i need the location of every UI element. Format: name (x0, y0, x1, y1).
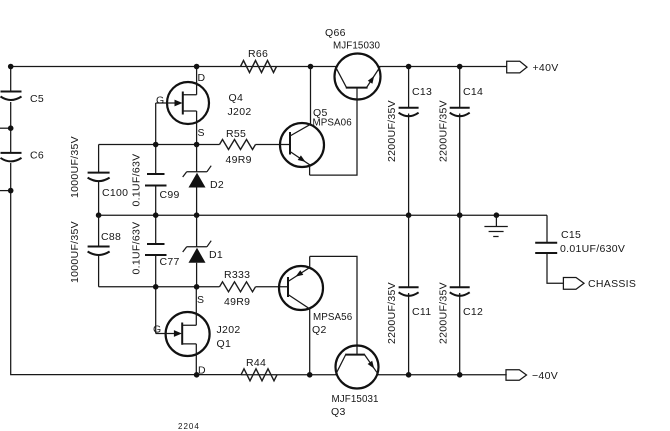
svg-text:D2: D2 (210, 179, 224, 191)
capacitor C12 (438, 215, 484, 375)
capacitor C14 (438, 67, 484, 216)
capacitor C5 (1, 92, 45, 106)
svg-text:2200UF/35V: 2200UF/35V (386, 100, 398, 162)
node mid C99 (153, 212, 159, 218)
capacitor C99 (131, 154, 180, 207)
svg-text:49R9: 49R9 (224, 296, 250, 308)
svg-text:J202: J202 (217, 324, 241, 336)
svg-text:G: G (153, 324, 161, 336)
resistor R333 (220, 269, 256, 308)
JFET Q1 (153, 287, 240, 377)
node Q4 source (194, 142, 200, 148)
svg-text:MJF15030: MJF15030 (333, 41, 381, 52)
resistor R44 (241, 357, 277, 381)
svg-text:C88: C88 (101, 231, 121, 243)
capacitor C100 (69, 136, 128, 199)
node C13 mid (406, 212, 412, 218)
svg-text:S: S (198, 127, 205, 139)
capacitor C6 (1, 150, 45, 162)
resistor R55 (220, 128, 256, 166)
svg-text:S: S (197, 294, 204, 306)
svg-text:R66: R66 (248, 48, 268, 60)
zener diode D2 (183, 166, 224, 191)
svg-text:MPSA06: MPSA06 (313, 118, 353, 129)
node C77 bottom (153, 284, 159, 290)
svg-text:0.01UF/630V: 0.01UF/630V (560, 243, 625, 255)
transistor Q5 (280, 107, 352, 175)
node dot top-left (8, 64, 14, 70)
transistor Q3 (331, 346, 379, 419)
svg-text:C12: C12 (463, 306, 483, 318)
wire upper gate line y144.5 (99, 144, 220, 146)
JFET Q4 (156, 67, 252, 145)
zener diode D1 (183, 241, 223, 263)
node C14 mid (457, 212, 463, 218)
svg-text:C77: C77 (160, 256, 180, 268)
wire R333 to Q2 base (256, 286, 289, 288)
resistor R66 (241, 48, 277, 73)
wire Q2 emitter link to Q3 base (310, 256, 357, 354)
node C11 bottom (406, 372, 412, 378)
terminal -40V (506, 370, 558, 382)
node mid main (194, 212, 200, 218)
svg-text:Q66: Q66 (325, 27, 346, 39)
node B (left 190) (8, 188, 14, 194)
node Q1 drain on rail (194, 372, 200, 378)
wire bottom rail (241, 374, 507, 376)
svg-text:C15: C15 (561, 229, 581, 241)
svg-text:C99: C99 (160, 189, 180, 201)
wire top rail (11, 66, 507, 68)
svg-text:Q3: Q3 (331, 406, 346, 418)
svg-text:D: D (198, 72, 206, 84)
wire Q5 collector riser (310, 67, 312, 125)
capacitor C77 (131, 222, 180, 275)
node C12 bottom (457, 372, 463, 378)
svg-text:C13: C13 (412, 86, 432, 98)
svg-text:C100: C100 (102, 187, 128, 199)
svg-text:Q1: Q1 (217, 338, 232, 350)
node Q4 drain on rail (194, 64, 200, 70)
node C99 top (153, 142, 159, 148)
node C14 top (457, 64, 463, 70)
node ground junction (494, 212, 500, 218)
node mid C100 (96, 212, 102, 218)
svg-text:+40V: +40V (533, 62, 559, 74)
node main lower (194, 284, 200, 290)
wire Q66 base down (310, 88, 357, 176)
wire stub left at node 190 (0, 190, 11, 192)
wire main vertical S to mid (196, 145, 198, 216)
wire left column vertical (11, 67, 241, 375)
svg-text:C14: C14 (463, 86, 483, 98)
node R44/Q2 collector junction (307, 372, 313, 378)
svg-text:D1: D1 (209, 249, 223, 261)
svg-text:R333: R333 (224, 269, 250, 281)
svg-text:0.1UF/63V: 0.1UF/63V (131, 154, 143, 207)
svg-text:1000UF/35V: 1000UF/35V (69, 221, 81, 283)
svg-text:−40V: −40V (532, 370, 558, 382)
svg-text:CHASSIS: CHASSIS (588, 278, 636, 290)
svg-text:1000UF/35V: 1000UF/35V (69, 136, 81, 198)
svg-text:0.1UF/63V: 0.1UF/63V (131, 222, 143, 275)
capacitor C88 (69, 215, 121, 287)
svg-text:2200UF/35V: 2200UF/35V (438, 100, 450, 162)
svg-text:R44: R44 (246, 357, 266, 369)
transistor Q66 (325, 27, 381, 100)
svg-text:2204: 2204 (178, 422, 200, 431)
svg-text:49R9: 49R9 (226, 154, 252, 166)
wire main vertical mid to r333 line (196, 215, 198, 287)
wire stub left at node 128 (0, 127, 11, 129)
node C13 top (406, 64, 412, 70)
wire R55 to Q5 base (256, 144, 291, 146)
svg-text:Q4: Q4 (229, 92, 244, 104)
node R66/Q5 collector junction (308, 64, 314, 70)
ground (484, 215, 507, 236)
wire C99 branch vertical from gate corner (155, 103, 157, 334)
capacitor C15 (535, 215, 625, 283)
svg-text:C5: C5 (30, 93, 44, 105)
terminal CHASSIS (563, 278, 636, 291)
wire C100 branch vertical upper (98, 145, 100, 216)
node A (left 128) (8, 125, 14, 131)
wire mid rail (99, 214, 547, 216)
svg-text:R55: R55 (226, 128, 246, 140)
svg-text:2200UF/35V: 2200UF/35V (438, 282, 450, 344)
terminal +40V (507, 61, 559, 74)
transistor Q2 (279, 256, 353, 374)
capacitor C11 (386, 215, 431, 375)
svg-text:Q2: Q2 (312, 324, 327, 336)
svg-text:C6: C6 (30, 150, 44, 162)
capacitor C13 (386, 67, 432, 216)
svg-text:2200UF/35V: 2200UF/35V (386, 282, 398, 344)
svg-text:G: G (156, 95, 164, 107)
svg-text:J202: J202 (228, 106, 252, 118)
svg-text:MPSA56: MPSA56 (313, 312, 353, 323)
svg-text:MJF15031: MJF15031 (332, 394, 379, 405)
svg-text:C11: C11 (412, 306, 431, 318)
wire lower gate line y286.8 (99, 286, 220, 288)
